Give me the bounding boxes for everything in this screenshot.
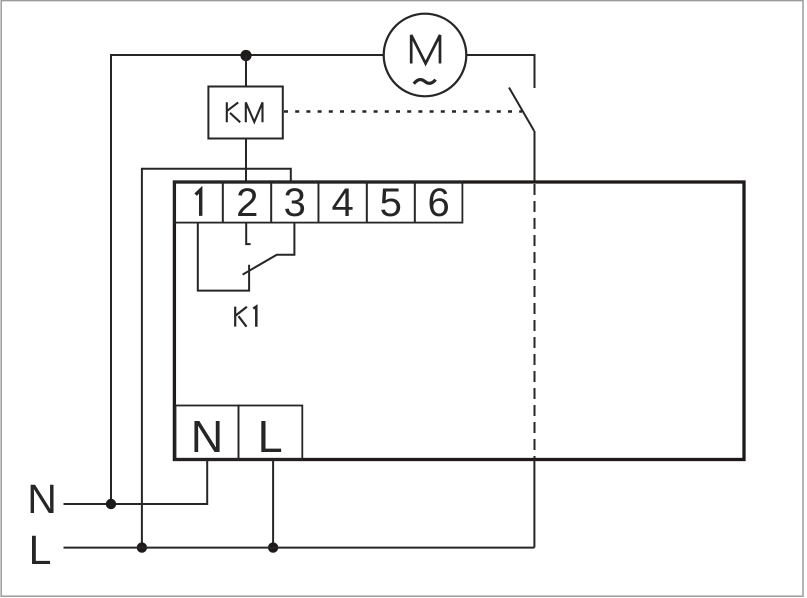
junction node: left vertical on N line — [106, 499, 116, 509]
terminal L — [239, 406, 303, 463]
dotted mechanical linkage KM to switch — [284, 110, 522, 113]
terminal N — [176, 406, 239, 463]
terminal 5 — [367, 181, 415, 225]
wire: top feed left segment (node to motor) — [111, 55, 384, 504]
terminal 6 — [415, 181, 463, 225]
relay contact K1: fixed contact from terminal 2 — [246, 223, 250, 245]
svg-text:N: N — [191, 411, 224, 462]
terminal 1 — [174, 182, 222, 223]
motor M — [384, 14, 467, 97]
wire: switch to device box top — [534, 131, 536, 182]
svg-text:N: N — [27, 476, 57, 522]
svg-text:L: L — [258, 411, 283, 462]
junction node: jumper drop on L line — [137, 542, 147, 552]
svg-text:2: 2 — [236, 181, 258, 225]
wire: terminal L down to L line — [272, 460, 274, 548]
terminal 3 — [271, 181, 318, 225]
svg-text:L: L — [29, 527, 52, 573]
junction node: terminal L on L line — [268, 542, 278, 552]
svg-text:6: 6 — [427, 181, 449, 225]
terminal 4 — [318, 181, 366, 225]
dashed wire through device box — [534, 184, 536, 459]
wire: node to KM coil top — [245, 56, 247, 87]
wire: motor right to switch — [467, 55, 535, 88]
wire: KM coil bottom to terminal 2 — [245, 139, 247, 183]
svg-text:5: 5 — [380, 181, 402, 225]
svg-text:4: 4 — [331, 181, 353, 225]
contactor coil KM — [208, 87, 282, 139]
relay contact K1: pole from terminal 1 — [198, 223, 249, 291]
wire: switch drop to L line — [533, 460, 535, 548]
label K1 — [235, 307, 256, 327]
svg-text:3: 3 — [284, 181, 306, 225]
wire: terminal N to N line — [64, 460, 208, 505]
junction node: top wire to KM coil — [240, 50, 251, 61]
wire: jumper terminal 3 to left drop — [142, 169, 291, 548]
device box — [174, 182, 744, 460]
switch contact KM (blade) — [509, 88, 534, 132]
terminal 2 — [223, 181, 271, 225]
wire: L line — [64, 547, 535, 549]
relay contact K1: blade and throw to terminal 3 — [243, 223, 295, 275]
